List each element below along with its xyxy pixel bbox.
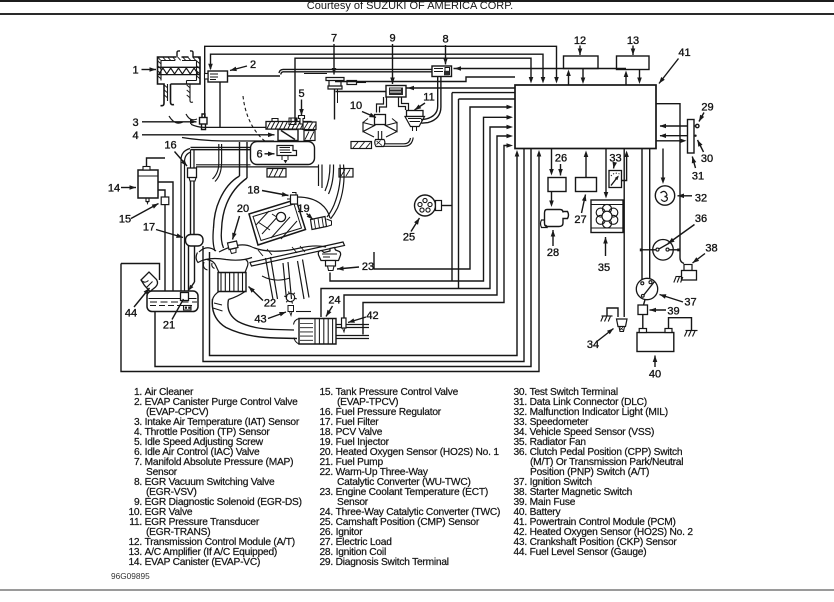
- svg-text:14: 14: [108, 183, 120, 195]
- wire box2 right: [228, 75, 281, 77]
- air horn hatched: [266, 122, 311, 130]
- CPP/PNP switch 36: [653, 240, 674, 261]
- svg-text:12: 12: [574, 35, 586, 47]
- regulator 16: [191, 150, 195, 168]
- leader 14: [121, 187, 136, 189]
- svg-text:22: 22: [264, 298, 276, 310]
- svg-text:4: 4: [132, 130, 138, 142]
- intake pipe wide: [240, 142, 248, 178]
- svg-text:23: 23: [362, 261, 374, 273]
- ECT sensor 23: [318, 248, 340, 261]
- leader 19: [307, 214, 314, 220]
- leader 8: [445, 45, 447, 65]
- MAP sensor 7: [326, 78, 344, 90]
- mount flange hatched right: [339, 169, 353, 178]
- injector 19: [311, 217, 327, 230]
- wire box2 down: [219, 82, 221, 128]
- IAT sensor 3: [200, 118, 208, 125]
- VSS ground wire: [607, 308, 618, 317]
- regulator to filter: [190, 181, 192, 234]
- leader 17: [156, 230, 183, 238]
- leader 3: [142, 121, 197, 123]
- svg-text:15: 15: [119, 214, 131, 226]
- wire box8 right y68.5: [454, 68, 627, 70]
- intake pipe curve to manifold: [214, 176, 240, 228]
- CMP sensor 25: [415, 195, 436, 216]
- head hatch details: [258, 246, 305, 256]
- EVAP purge valve 2: [208, 71, 228, 82]
- test terminal 29 circle: [694, 125, 696, 127]
- ignitor 26: [548, 178, 566, 192]
- main fuse 39: [638, 305, 648, 315]
- wire run B3 y366.5: [155, 149, 531, 367]
- arrow 12: [579, 46, 581, 56]
- battery 40: [637, 333, 674, 352]
- leader 37: [660, 295, 684, 303]
- engine valve cover: [249, 200, 306, 246]
- arrow 13: [632, 46, 634, 56]
- air cleaner filter zigzag: [158, 67, 200, 74]
- legend column 2: [309, 388, 458, 399]
- leader 16: [175, 152, 188, 167]
- fuel pump 21: [181, 293, 189, 301]
- leader 7: [333, 44, 335, 75]
- fuel filter 17: [186, 235, 204, 247]
- EGR valve 10: [375, 115, 386, 125]
- wire run L2 y281 from ECT: [330, 117, 509, 281]
- svg-text:41: 41: [678, 47, 690, 59]
- footer code: [111, 571, 150, 581]
- svg-text:8: 8: [442, 34, 448, 46]
- purge pipe into intake: [213, 144, 222, 182]
- fuel rail bar: [250, 242, 345, 266]
- ignition coil 28: [545, 210, 569, 227]
- TWC 24: [299, 319, 336, 345]
- svg-text:18: 18: [247, 185, 259, 197]
- radiator fan 35: [591, 200, 623, 233]
- svg-text:24: 24: [328, 295, 340, 307]
- throttle flange hatched: [303, 122, 316, 130]
- leader 9: [392, 44, 394, 84]
- wire to fan 35: [605, 149, 607, 195]
- DLC connector 31: [688, 120, 695, 154]
- svg-text:39: 39: [667, 306, 679, 318]
- wire box13 down: [639, 70, 641, 81]
- fuel level sensor 44: [141, 272, 158, 292]
- wire speedo to PCM: [622, 154, 627, 181]
- leader 27: [582, 195, 586, 214]
- arrow 26: [560, 164, 562, 176]
- svg-text:27: 27: [574, 214, 586, 226]
- wire DLC line3: [656, 140, 683, 142]
- wire 44 connector: [121, 264, 160, 281]
- ground 38: [676, 276, 683, 278]
- svg-text:2: 2: [250, 59, 256, 71]
- oil cap circle: [276, 212, 285, 221]
- hose below 8: [421, 77, 438, 120]
- svg-text:32: 32: [695, 193, 707, 205]
- wire 39 to battery: [642, 315, 644, 329]
- wire box12 down: [582, 69, 584, 81]
- intake runner fan lines: [266, 257, 278, 300]
- wire run L4 y295 from HO2S2: [344, 136, 509, 318]
- box 12 Transmission Control Module: [564, 56, 599, 69]
- svg-text:26: 26: [555, 153, 567, 165]
- air cleaner mouth curve: [169, 114, 197, 123]
- ground VSS: [602, 315, 613, 317]
- leader 11: [415, 103, 426, 110]
- EGR transducer 11: [407, 111, 424, 117]
- TP sensor 4: [278, 130, 298, 141]
- svg-text:37: 37: [684, 297, 696, 309]
- EGR solenoid 9: [386, 86, 406, 98]
- leader 30: [698, 140, 704, 152]
- wire 9 right to PCM: [406, 87, 515, 89]
- svg-text:6: 6: [256, 149, 262, 161]
- wire pump: [190, 282, 195, 289]
- svg-text:9: 9: [389, 33, 395, 45]
- wire 36 row: [641, 249, 656, 251]
- wire top band y59: [295, 58, 531, 143]
- speedometer 33: [609, 171, 622, 188]
- wire CMP: [442, 205, 453, 207]
- wire top band y46: [205, 46, 557, 121]
- engine cover hatch: [256, 211, 297, 239]
- leader 6: [265, 153, 275, 155]
- wire run B4 y371.5: [121, 153, 539, 372]
- leader 34: [598, 329, 614, 342]
- wire MAP to PCM stepped: [335, 77, 515, 82]
- fuel lines under plenum: [196, 164, 251, 166]
- leader 38: [693, 254, 706, 264]
- svg-text:43: 43: [254, 314, 266, 326]
- tail pipe lower: [336, 336, 369, 339]
- svg-text:40: 40: [649, 369, 661, 381]
- svg-text:44: 44: [125, 308, 137, 320]
- svg-text:20: 20: [237, 203, 249, 215]
- arrow 40: [654, 356, 656, 368]
- wire DLC line2: [660, 135, 688, 137]
- fuel tank: [147, 291, 198, 312]
- leader 31: [692, 157, 695, 169]
- wire to ignitor 26: [551, 149, 553, 172]
- leader 41: [659, 59, 679, 84]
- CKP sensor 43: [286, 293, 294, 301]
- legend column 3: [503, 388, 618, 399]
- leader 29: [699, 113, 704, 122]
- starter magnetic switch 38: [684, 265, 692, 271]
- header text: [0, 0, 827, 12]
- HO2S2 sensor 42: [342, 318, 347, 328]
- leader 22: [249, 287, 264, 301]
- fan stub: [605, 252, 607, 256]
- svg-text:38: 38: [705, 243, 717, 255]
- leader 4: [142, 134, 275, 136]
- wire PCM right down x680: [656, 104, 680, 250]
- leader 25: [411, 218, 420, 232]
- PCV valve 18: [291, 195, 298, 204]
- wire box13 up: [625, 75, 627, 86]
- air cleaner 1: [158, 57, 201, 106]
- IAC valve 6: [277, 146, 297, 156]
- wire canister right: [158, 190, 165, 197]
- ignition switch 37: [636, 278, 657, 299]
- leader 44: [134, 288, 150, 307]
- wire box12 up: [568, 74, 570, 86]
- svg-text:11: 11: [423, 92, 434, 104]
- leader 15: [131, 204, 159, 219]
- wire DLC line1: [660, 125, 688, 127]
- VSS 34: [617, 319, 628, 327]
- svg-text:28: 28: [547, 247, 559, 259]
- wire corner x452: [452, 93, 515, 281]
- svg-text:34: 34: [587, 339, 599, 351]
- EGR VSV 8: [432, 66, 452, 77]
- leader 10: [362, 112, 376, 118]
- svg-text:25: 25: [403, 232, 415, 244]
- svg-text:10: 10: [350, 100, 362, 112]
- wire hose to box8 y70: [283, 68, 432, 70]
- svg-text:19: 19: [297, 203, 309, 215]
- wire run B1 y355.5: [210, 153, 518, 356]
- leader 5: [301, 100, 303, 116]
- wire VSS x624: [623, 149, 625, 318]
- leader 21: [172, 299, 184, 320]
- PCM box 41: [515, 85, 656, 149]
- leader 43: [268, 312, 286, 319]
- wire 9 left: [336, 91, 387, 93]
- HO2S1 sensor 20: [228, 241, 239, 250]
- leader 39: [650, 309, 667, 311]
- svg-text:3: 3: [132, 117, 138, 129]
- wire CKP right: [296, 311, 311, 313]
- idle screw 5: [299, 116, 305, 125]
- wire corner x458.5: [459, 99, 516, 289]
- wire run L5 y302.5: [363, 146, 510, 335]
- wire x642 down: [641, 149, 643, 282]
- exhaust pipe sweep: [212, 299, 297, 339]
- intake assembly top line: [182, 138, 274, 142]
- leader 42: [348, 317, 366, 323]
- runner hatched lower: [267, 169, 286, 178]
- arrow 33: [614, 164, 615, 169]
- plenum chamber: [251, 142, 315, 165]
- leader 18: [262, 191, 289, 196]
- leader 32: [678, 195, 693, 197]
- vapor line tank to engine: [181, 149, 190, 292]
- wire run L3 y288.5 from TWC: [321, 127, 509, 317]
- filter to tank lines: [188, 246, 190, 303]
- valve 15: [161, 197, 169, 205]
- leader 24: [326, 306, 333, 317]
- leader 2: [230, 66, 247, 71]
- leader 20: [233, 216, 240, 240]
- svg-text:1: 1: [132, 65, 138, 77]
- wire top band y54: [211, 54, 544, 79]
- EGR pipe to transducer: [384, 138, 413, 147]
- MIL lamp 32: [655, 186, 674, 205]
- intake runners from plenum: [319, 165, 323, 189]
- svg-text:7: 7: [331, 33, 337, 45]
- header line top: [0, 0, 834, 2]
- svg-text:36: 36: [695, 213, 707, 225]
- EVAP canister 14: [138, 170, 158, 198]
- electric load 27: [576, 178, 597, 192]
- wire run B2 y361.5: [203, 149, 524, 362]
- leader 23: [337, 267, 359, 269]
- wire 38 top: [679, 250, 681, 258]
- svg-text:13: 13: [627, 35, 639, 47]
- legend column 1: [118, 388, 193, 399]
- svg-text:42: 42: [366, 310, 378, 322]
- wire run L1 y269: [374, 107, 509, 269]
- svg-text:21: 21: [163, 320, 175, 332]
- leader 1: [142, 69, 157, 71]
- crank pulley arcs: [262, 276, 290, 280]
- WU-TWC 22: [218, 273, 246, 292]
- svg-text:35: 35: [598, 262, 610, 274]
- leader 35: [605, 237, 607, 252]
- svg-text:31: 31: [692, 171, 704, 183]
- EGR hatched flange: [351, 142, 372, 149]
- wire x650 down: [649, 149, 651, 279]
- MAP stem: [334, 89, 336, 120]
- svg-text:16: 16: [164, 140, 176, 152]
- fuel lines y148: [191, 146, 251, 148]
- svg-text:17: 17: [143, 222, 155, 234]
- wire 37 to 39: [644, 300, 646, 305]
- air cleaner top hooks: [177, 51, 193, 58]
- wire 26 to coil: [551, 192, 553, 204]
- ground battery: [686, 330, 698, 332]
- header rule: [0, 13, 834, 15]
- head lower edge: [252, 246, 326, 251]
- leader 28: [552, 230, 554, 246]
- wire 27 to PCM: [585, 154, 587, 178]
- canister top stub: [147, 158, 166, 167]
- pipe bellows: [213, 303, 223, 311]
- footer rule: [0, 589, 834, 591]
- EGR passage below 9: [377, 97, 384, 113]
- tail pipe upper: [336, 325, 369, 328]
- leader 36: [668, 225, 695, 244]
- wire to MIL 32: [662, 149, 664, 181]
- battery right wire to ground: [669, 318, 692, 330]
- IAT line to throttle: [191, 124, 266, 127]
- MAP left connector: [347, 81, 357, 85]
- svg-text:30: 30: [701, 153, 713, 165]
- svg-text:29: 29: [701, 102, 713, 114]
- svg-text:5: 5: [298, 88, 304, 100]
- exhaust manifold curve: [213, 228, 224, 251]
- box 13 A/C Amplifier: [617, 56, 650, 70]
- throttle cable dashed curve: [243, 96, 266, 142]
- PCV hose: [298, 197, 331, 218]
